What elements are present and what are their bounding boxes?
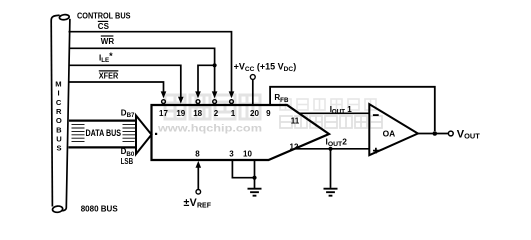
- wire CS to pin 1: [69, 32, 232, 97]
- junction dot WR/WR2: [213, 63, 217, 67]
- node data bus entry dot: [155, 133, 157, 135]
- wire ILE to pin 19: [69, 65, 181, 97]
- svg-text:U: U: [56, 135, 62, 144]
- output wire: [418, 133, 448, 135]
- op-amp OA: [369, 104, 418, 155]
- arrowhead pin 18: [195, 91, 201, 98]
- label WR: [101, 36, 115, 46]
- ground pins 3-10: [248, 189, 262, 196]
- svg-text:11: 11: [291, 116, 300, 125]
- arrowhead pin 2: [212, 91, 218, 98]
- svg-text:O: O: [56, 116, 62, 125]
- junction dot IOUT2: [328, 147, 332, 151]
- pin 2 input circle: [213, 100, 217, 104]
- svg-text:18: 18: [193, 109, 202, 118]
- svg-text:I: I: [57, 89, 59, 98]
- svg-text:20: 20: [250, 109, 259, 118]
- svg-text:OA: OA: [383, 129, 396, 139]
- VOUT terminal: [448, 131, 453, 136]
- label XFER: [99, 71, 119, 81]
- op-amp minus input: [373, 114, 379, 116]
- wire pin 3 to ground: [232, 160, 254, 178]
- wire IOUT2: [295, 148, 370, 150]
- data bus hatch left: [72, 125, 85, 142]
- ground IOUT2: [324, 189, 338, 196]
- svg-text:R: R: [56, 107, 62, 116]
- data bus arrow: [69, 116, 152, 155]
- svg-text:www.hqchip.com: www.hqchip.com: [157, 123, 262, 135]
- arrowhead pin 17: [161, 91, 167, 98]
- pin 1 input circle: [230, 100, 234, 104]
- svg-text:9: 9: [266, 109, 271, 118]
- svg-text:CS: CS: [98, 22, 110, 31]
- svg-text:XFER: XFER: [99, 72, 119, 81]
- svg-text:LSB: LSB: [121, 157, 134, 166]
- pin 18 input circle: [196, 100, 200, 104]
- VCC terminal: [250, 75, 255, 105]
- svg-text:DATA BUS: DATA BUS: [86, 128, 122, 138]
- svg-text:17: 17: [159, 109, 168, 118]
- label ILE*: [99, 51, 113, 64]
- svg-text:S: S: [57, 144, 62, 153]
- svg-text:3: 3: [229, 149, 234, 158]
- microprocessor bus cylinder: [51, 14, 70, 213]
- svg-text:12: 12: [290, 143, 299, 152]
- svg-text:10: 10: [243, 149, 252, 158]
- svg-text:19: 19: [176, 109, 185, 118]
- watermark hqchip big chars: [165, 95, 260, 119]
- watermark right line 1: [280, 99, 376, 110]
- arrowhead pin 19: [178, 97, 184, 104]
- VREF terminal arrow: [196, 161, 202, 194]
- wire IOUT2 to ground: [330, 149, 332, 188]
- wire RFB feedback: [270, 87, 435, 131]
- svg-text:WR: WR: [101, 37, 115, 46]
- arrowhead pin 1: [229, 91, 235, 98]
- svg-text:2: 2: [214, 109, 219, 118]
- pin 17 input circle: [162, 100, 166, 104]
- label CS: [98, 21, 110, 31]
- data bus hatch right: [123, 125, 137, 142]
- DAC chip U1 outline: [152, 105, 330, 160]
- wire WR2 branch to pin 18: [198, 65, 215, 96]
- junction dot output: [433, 131, 438, 136]
- svg-text:CONTROL BUS: CONTROL BUS: [77, 10, 131, 20]
- svg-text:8080 BUS: 8080 BUS: [81, 203, 118, 213]
- svg-text:8: 8: [195, 149, 200, 158]
- op-amp plus input: [373, 148, 379, 154]
- wire pin 10 to ground: [254, 160, 256, 189]
- wire IOUT1: [299, 112, 369, 114]
- svg-text:B: B: [56, 125, 62, 134]
- watermark right line 2: [280, 116, 382, 128]
- label MICROBUS vertical: [55, 80, 62, 153]
- svg-text:C: C: [56, 98, 62, 107]
- svg-text:M: M: [55, 80, 61, 89]
- svg-text:1: 1: [231, 109, 236, 118]
- wire XFER to pin 17: [69, 82, 164, 96]
- junction dot pins 3-10: [252, 176, 256, 180]
- wire WR to pin 2: [69, 48, 215, 96]
